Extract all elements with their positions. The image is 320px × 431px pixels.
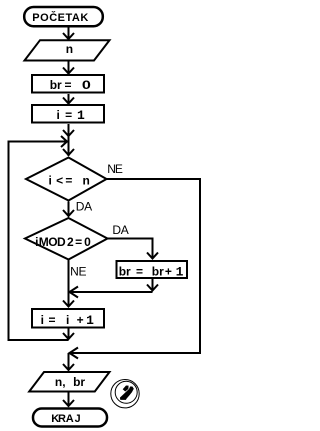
- wire NE diamond2 down to i=i+1: [68, 260, 70, 307]
- loop-back arrowhead (right): [61, 136, 67, 147]
- wire junction to diamond1: [68, 136, 70, 156]
- wire loop back left-up-right: [9, 142, 69, 341]
- input parallelogram n: [25, 40, 110, 60]
- terminator KRAJ: [33, 409, 107, 427]
- wire DA diamond1 to diamond2: [68, 202, 70, 217]
- printer icon bolt upper piece: [123, 386, 129, 392]
- svg-text:POČETAK: POČETAK: [32, 11, 88, 24]
- arrowhead into br=br+1: [147, 253, 158, 259]
- svg-text:NE: NE: [107, 162, 123, 176]
- wire merge horizontal to main line: [70, 291, 153, 293]
- arrowhead into i=i+1: [63, 301, 74, 307]
- wire NE corner down to output: [68, 353, 70, 370]
- svg-text:DA: DA: [112, 223, 128, 237]
- svg-text:NE: NE: [70, 265, 86, 279]
- wire output to KRAJ: [68, 393, 70, 407]
- svg-text:br=0: br=0: [50, 78, 92, 92]
- arrowhead into diamond2: [63, 210, 74, 216]
- printer icon outer arc: [111, 380, 139, 408]
- arrowhead into br=0: [63, 68, 74, 74]
- process box br = 0: [32, 75, 104, 93]
- wire DA branch diamond2 to br=br+1: [108, 239, 153, 259]
- process box i = 1: [32, 105, 104, 123]
- svg-text:n: n: [66, 42, 73, 56]
- svg-text:DA: DA: [76, 200, 92, 214]
- decision diamond i <= n: [26, 158, 107, 201]
- wire i=1 to junction: [68, 124, 70, 136]
- process box br = br+1: [117, 261, 188, 278]
- wire br=0 to i=1: [68, 94, 70, 103]
- arrowhead into i=1: [63, 98, 74, 104]
- decision diamond iMOD2=0: [25, 218, 108, 260]
- wire start to input n: [68, 27, 70, 39]
- arrowhead at junction: [63, 130, 74, 136]
- wire n to br=0: [68, 62, 70, 74]
- svg-text:i=i+1: i=i+1: [41, 313, 94, 328]
- output parallelogram n,br: [29, 372, 109, 392]
- printer icon inner circle: [115, 381, 137, 403]
- wire NE branch diamond1 right: [70, 179, 200, 353]
- arrowhead at loop corner: [63, 333, 74, 339]
- arrowhead into input n: [63, 33, 74, 39]
- terminator POCETAK: [24, 7, 103, 26]
- arrowhead merge (left): [70, 287, 79, 298]
- svg-text:KRAJ: KRAJ: [51, 413, 80, 425]
- arrowhead into output n,br: [63, 364, 74, 370]
- process box i = i +1: [32, 309, 104, 328]
- arrowhead at merge corner: [147, 285, 158, 291]
- arrowhead into diamond1: [63, 149, 74, 155]
- arrowhead into KRAJ: [63, 400, 74, 406]
- wire i=i+1 down to loop corner: [68, 329, 70, 340]
- wire br=br+1 down to merge: [152, 279, 154, 291]
- arrowhead NE return (left): [70, 348, 79, 359]
- printer icon bolt main bar: [120, 387, 134, 400]
